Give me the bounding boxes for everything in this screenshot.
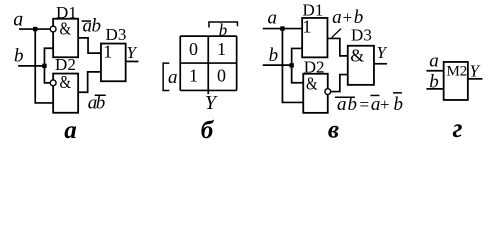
node junction a <box>280 26 284 30</box>
svg-text:&: & <box>59 72 70 92</box>
wire D3 output Y <box>374 63 387 65</box>
wire input a <box>263 28 302 30</box>
inverter bubble D2 output <box>325 89 331 95</box>
bracket a rows <box>163 63 169 90</box>
node junction a <box>33 27 37 31</box>
svg-text:a: a <box>168 67 178 88</box>
wire input b <box>426 88 443 90</box>
svg-text:b: b <box>219 20 228 39</box>
or gate D3 <box>101 44 126 82</box>
svg-text:+: + <box>343 8 353 27</box>
svg-text:1: 1 <box>103 41 112 61</box>
svg-text:1: 1 <box>189 66 198 86</box>
bracket b column <box>209 22 238 28</box>
svg-text:0: 0 <box>189 39 198 59</box>
svg-text:b: b <box>269 45 279 66</box>
svg-text:a: a <box>371 94 381 115</box>
svg-text:b: b <box>91 15 101 36</box>
leader line of a+b <box>332 29 341 38</box>
wire D2 output to D3 input 2 <box>331 75 348 92</box>
svg-text:&: & <box>350 45 364 65</box>
wire a down to D2 input 2 <box>282 29 303 103</box>
wire a down to D2 input 2 <box>35 29 53 103</box>
svg-text:a: a <box>429 50 439 71</box>
svg-text:a: a <box>267 7 277 28</box>
svg-text:Y: Y <box>205 92 218 114</box>
overline of a <box>82 20 91 22</box>
wire input b <box>263 64 292 66</box>
svg-text:b: b <box>393 94 403 115</box>
wire b up to D1 input 2 <box>292 48 303 65</box>
wire D3 output Y <box>126 60 139 62</box>
svg-text:в: в <box>328 116 339 143</box>
wire input a <box>426 70 443 72</box>
overline of b <box>393 92 402 94</box>
svg-text:а: а <box>64 117 77 144</box>
wire b down to D2 input 1 bubble <box>44 66 50 83</box>
svg-text:D3: D3 <box>351 25 372 44</box>
svg-text:+: + <box>380 95 390 114</box>
svg-text:Y: Y <box>469 61 480 80</box>
wire D1 output to D3 input 1 <box>78 38 101 53</box>
wire D2 output to D3 input 2 <box>78 72 101 92</box>
label ab-bar = a-bar + b-bar <box>337 94 403 115</box>
nand gate D2 <box>303 74 328 113</box>
svg-text:M2: M2 <box>446 63 467 79</box>
xor gate M2 <box>444 62 468 100</box>
label a-bar b <box>82 15 101 36</box>
or gate D1 <box>302 18 327 57</box>
svg-text:г: г <box>452 113 462 143</box>
label a b-bar <box>88 92 106 113</box>
svg-text:a: a <box>13 9 23 31</box>
node junction b <box>42 64 46 68</box>
node junction b <box>289 63 293 67</box>
wire input b <box>18 65 44 67</box>
wire b up to D1 input 2 <box>44 48 53 66</box>
svg-text:Y: Y <box>126 43 137 62</box>
svg-text:&: & <box>306 74 318 94</box>
svg-text:&: & <box>59 19 70 39</box>
and gate D1 <box>53 19 78 58</box>
and gate D3 <box>348 46 374 85</box>
svg-text:0: 0 <box>217 66 226 86</box>
overline of a <box>370 94 379 96</box>
svg-text:=: = <box>360 95 370 114</box>
and gate D2 <box>53 74 78 113</box>
label a+b <box>332 7 363 28</box>
overline of b <box>95 94 106 96</box>
svg-text:б: б <box>201 117 215 144</box>
karnaugh grid <box>180 36 236 94</box>
wire M2 output Y <box>468 78 483 80</box>
svg-text:b: b <box>14 45 24 66</box>
svg-text:a: a <box>332 7 342 28</box>
inverter bubble D1 input 1 <box>50 26 56 32</box>
wire D1 output to D3 input 1 <box>327 38 347 55</box>
inverter bubble D2 input 1 <box>50 80 56 86</box>
wire b down to D2 input 1 <box>292 65 304 83</box>
svg-text:1: 1 <box>217 39 226 59</box>
overline of ab <box>335 96 355 98</box>
wire input a <box>19 28 50 30</box>
svg-text:Y: Y <box>376 43 387 62</box>
svg-text:1: 1 <box>302 17 311 37</box>
